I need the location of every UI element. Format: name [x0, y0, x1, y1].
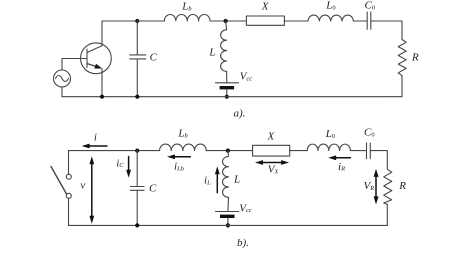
transistor Q1	[81, 43, 112, 74]
svg-text:X: X	[261, 1, 270, 13]
capacitor C0 b	[367, 143, 371, 159]
node top of L b	[226, 149, 230, 153]
wire X to L0	[284, 20, 308, 22]
svg-text:L0: L0	[325, 128, 335, 140]
svg-text:Vcc: Vcc	[239, 202, 252, 214]
wire L0 to C0	[353, 20, 367, 22]
inductor L b (vertical)	[223, 151, 229, 212]
svg-text:C0: C0	[365, 0, 376, 12]
wire switch to bottom rail	[68, 198, 70, 225]
AC source G1	[54, 70, 71, 87]
wire source-bottom to bottom rail	[61, 87, 63, 97]
battery Vcc	[215, 83, 238, 97]
node top of C b	[135, 149, 139, 153]
svg-text:R: R	[398, 180, 406, 192]
wire Lb to X b	[206, 150, 252, 152]
inductor L0	[308, 15, 353, 21]
wire top rail C node to Lb	[137, 20, 164, 22]
svg-text:iLb: iLb	[174, 161, 185, 173]
svg-text:a).: a).	[234, 107, 246, 119]
battery Vcc b	[215, 212, 238, 226]
wire R to bottom rail b	[386, 204, 388, 225]
current arrow iLb	[167, 154, 190, 159]
svg-text:C0: C0	[364, 127, 375, 139]
svg-text:VX: VX	[268, 163, 280, 175]
left edge wire to switch	[68, 151, 70, 175]
svg-text:Vcc: Vcc	[240, 71, 253, 83]
resistor R b	[384, 169, 392, 204]
wire Lb to L node	[210, 20, 246, 22]
wire source-top to transistor base	[62, 59, 87, 71]
wire X to L0 b	[290, 150, 308, 152]
inductor L (vertical)	[221, 21, 227, 83]
node battery-bottom b	[226, 223, 230, 227]
svg-text:Lb: Lb	[177, 128, 188, 140]
wire C0 to right corner b	[370, 151, 387, 169]
node top of C	[135, 19, 139, 23]
current arrow i	[82, 144, 107, 149]
node battery-bottom	[225, 95, 229, 99]
current arrow iL	[215, 166, 220, 192]
wire L0 to C0 b	[350, 150, 366, 152]
svg-text:iL: iL	[204, 175, 211, 187]
svg-text:C: C	[150, 51, 158, 63]
resistor R	[398, 40, 406, 76]
capacitor C	[130, 21, 146, 97]
voltage arrow v	[89, 156, 94, 223]
svg-text:Lb: Lb	[181, 1, 192, 13]
top rail b left	[69, 150, 160, 152]
wire C0 to right corner	[371, 21, 402, 40]
wire emitter down	[101, 68, 103, 96]
voltage arrow VR	[374, 169, 379, 205]
svg-text:iR: iR	[338, 161, 345, 173]
box X b	[253, 145, 290, 156]
box X	[246, 16, 284, 25]
svg-text:L: L	[208, 47, 215, 59]
svg-text:i: i	[94, 132, 97, 144]
wire top rail collector to C node	[102, 20, 137, 22]
svg-text:b).: b).	[237, 237, 249, 249]
inductor Lb	[164, 15, 210, 21]
svg-text:VR: VR	[364, 180, 375, 192]
bottom rail b	[69, 224, 388, 226]
inductor Lb b	[160, 144, 207, 151]
current arrow iC	[126, 157, 131, 178]
node top of L	[224, 19, 228, 23]
capacitor C0	[367, 12, 371, 29]
node C-bottom b	[135, 223, 139, 227]
svg-text:R: R	[411, 52, 419, 64]
wire collector up	[101, 21, 103, 46]
svg-text:C: C	[149, 182, 157, 194]
current arrow iR	[328, 155, 350, 160]
svg-text:L: L	[233, 173, 240, 185]
svg-text:v: v	[80, 180, 85, 192]
svg-text:L0: L0	[325, 0, 335, 12]
capacitor C b	[130, 151, 144, 226]
voltage arrow VX	[255, 160, 289, 165]
wire R to bottom rail	[401, 76, 403, 97]
svg-text:X: X	[267, 131, 276, 143]
bottom rail a	[62, 96, 402, 98]
node emitter-bottom	[100, 95, 104, 99]
inductor L0 b	[307, 144, 350, 150]
svg-text:iC: iC	[116, 157, 124, 169]
node C-bottom	[135, 95, 139, 99]
switch S	[51, 167, 71, 199]
